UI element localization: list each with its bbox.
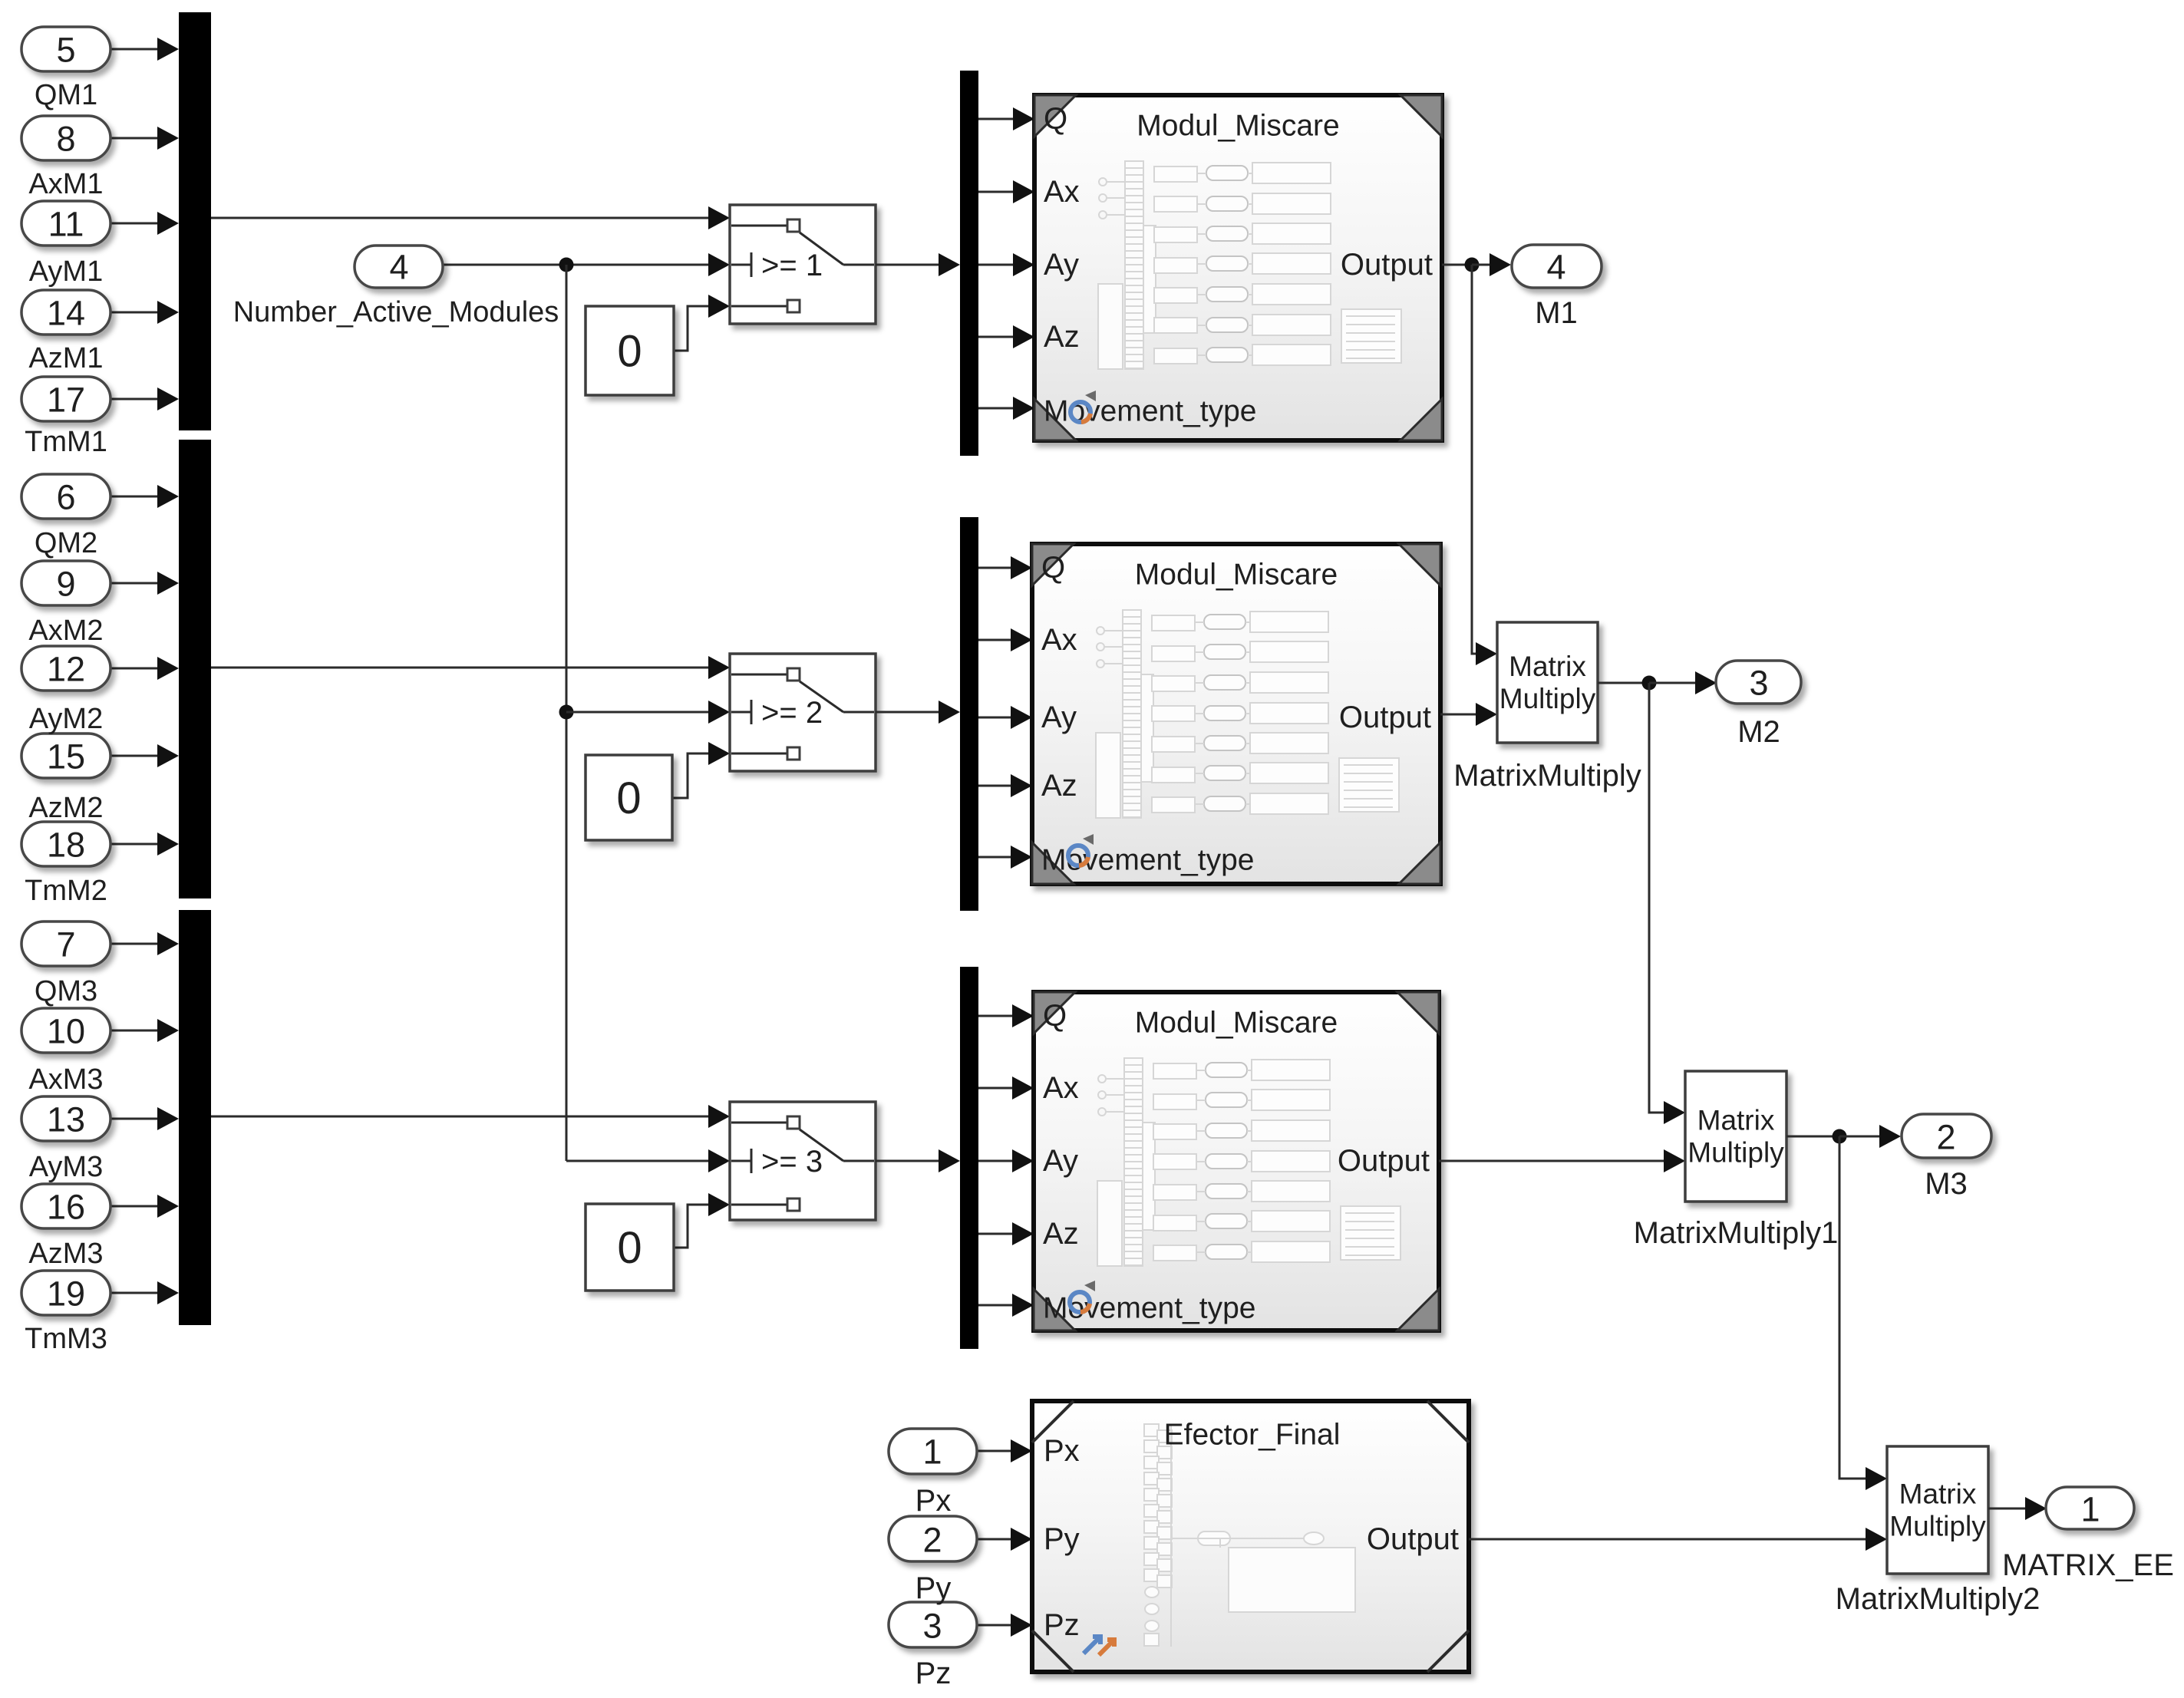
svg-text:2: 2	[922, 1521, 942, 1560]
svg-text:Ay: Ay	[1041, 701, 1077, 734]
svg-text:5: 5	[56, 31, 75, 70]
svg-text:>= 1: >= 1	[761, 249, 823, 282]
svg-text:TmM2: TmM2	[25, 875, 107, 907]
svg-text:AxM2: AxM2	[28, 615, 103, 647]
svg-text:0: 0	[616, 773, 641, 823]
svg-text:Pz: Pz	[1044, 1608, 1080, 1642]
svg-text:Output: Output	[1338, 1144, 1430, 1178]
svg-text:AzM1: AzM1	[28, 342, 103, 374]
svg-text:14: 14	[47, 294, 85, 333]
svg-text:11: 11	[48, 205, 84, 244]
svg-text:AyM3: AyM3	[29, 1151, 103, 1183]
svg-text:Q: Q	[1043, 999, 1067, 1033]
svg-text:3: 3	[1749, 664, 1768, 703]
svg-text:4: 4	[1546, 248, 1565, 287]
svg-text:Efector_Final: Efector_Final	[1164, 1419, 1341, 1452]
svg-text:Px: Px	[915, 1484, 952, 1518]
svg-text:Az: Az	[1041, 769, 1077, 803]
svg-text:Az: Az	[1043, 1217, 1079, 1251]
svg-text:Number_Active_Modules: Number_Active_Modules	[233, 296, 559, 328]
svg-text:Py: Py	[915, 1571, 952, 1605]
svg-text:10: 10	[47, 1012, 85, 1051]
svg-text:QM3: QM3	[35, 975, 97, 1007]
svg-text:3: 3	[922, 1607, 942, 1646]
svg-text:Modul_Miscare: Modul_Miscare	[1137, 110, 1339, 143]
svg-text:Py: Py	[1044, 1522, 1080, 1556]
svg-text:MatrixMultiply2: MatrixMultiply2	[1836, 1582, 2040, 1616]
svg-text:Multiply: Multiply	[1687, 1137, 1784, 1169]
svg-text:AxM3: AxM3	[28, 1063, 103, 1096]
svg-text:>= 2: >= 2	[761, 696, 823, 730]
svg-text:Multiply: Multiply	[1889, 1511, 1986, 1542]
svg-text:2: 2	[1936, 1118, 1955, 1157]
svg-text:QM2: QM2	[35, 527, 97, 559]
svg-text:Q: Q	[1044, 102, 1067, 136]
svg-text:12: 12	[47, 650, 85, 689]
svg-text:Multiply: Multiply	[1499, 683, 1596, 714]
svg-text:Matrix: Matrix	[1509, 651, 1586, 682]
svg-text:13: 13	[47, 1100, 85, 1139]
svg-text:Ay: Ay	[1043, 1144, 1078, 1178]
svg-text:Ax: Ax	[1043, 1071, 1079, 1105]
svg-text:AxM1: AxM1	[28, 168, 103, 200]
svg-text:6: 6	[56, 478, 75, 517]
svg-text:AyM1: AyM1	[29, 256, 103, 288]
svg-text:Output: Output	[1367, 1522, 1459, 1556]
svg-text:9: 9	[56, 565, 75, 604]
svg-text:7: 7	[56, 925, 75, 964]
svg-text:AyM2: AyM2	[29, 703, 103, 735]
svg-text:1: 1	[922, 1433, 942, 1472]
svg-text:QM1: QM1	[35, 79, 97, 111]
svg-text:MATRIX_EE: MATRIX_EE	[2002, 1548, 2174, 1582]
svg-text:17: 17	[47, 381, 85, 420]
svg-text:19: 19	[47, 1274, 85, 1314]
svg-text:0: 0	[617, 327, 642, 377]
svg-text:Pz: Pz	[915, 1657, 952, 1690]
svg-text:M3: M3	[1925, 1167, 1968, 1201]
svg-text:Q: Q	[1041, 551, 1065, 585]
svg-text:Output: Output	[1341, 248, 1433, 282]
svg-text:Ax: Ax	[1041, 623, 1077, 657]
svg-text:0: 0	[617, 1223, 642, 1273]
svg-text:8: 8	[56, 120, 75, 159]
svg-text:Matrix: Matrix	[1899, 1479, 1977, 1510]
svg-text:Modul_Miscare: Modul_Miscare	[1135, 1007, 1338, 1040]
svg-text:TmM3: TmM3	[25, 1323, 107, 1355]
svg-text:15: 15	[47, 737, 85, 776]
svg-text:M2: M2	[1737, 715, 1780, 749]
svg-text:>= 3: >= 3	[761, 1145, 823, 1179]
svg-text:Ax: Ax	[1044, 175, 1080, 209]
svg-text:Modul_Miscare: Modul_Miscare	[1135, 559, 1338, 592]
svg-text:Matrix: Matrix	[1697, 1105, 1775, 1136]
svg-text:1: 1	[2080, 1490, 2100, 1529]
svg-text:MatrixMultiply1: MatrixMultiply1	[1634, 1216, 1839, 1250]
svg-text:16: 16	[47, 1188, 85, 1227]
svg-text:4: 4	[389, 248, 408, 287]
svg-text:AzM3: AzM3	[28, 1238, 103, 1270]
svg-text:Ay: Ay	[1044, 248, 1079, 282]
svg-text:18: 18	[47, 826, 85, 865]
svg-text:MatrixMultiply: MatrixMultiply	[1453, 759, 1641, 793]
svg-text:TmM1: TmM1	[25, 426, 107, 458]
svg-text:Az: Az	[1044, 320, 1080, 354]
svg-text:Output: Output	[1339, 701, 1431, 734]
svg-text:M1: M1	[1535, 296, 1578, 330]
svg-text:Px: Px	[1044, 1434, 1080, 1468]
svg-text:AzM2: AzM2	[28, 792, 103, 824]
